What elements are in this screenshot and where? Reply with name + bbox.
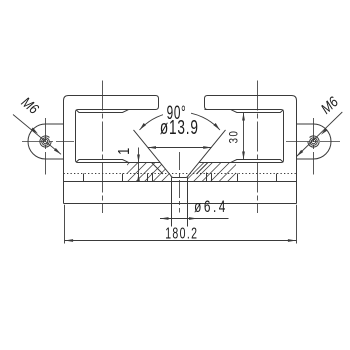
svg-text:ø6.4: ø6.4 bbox=[194, 198, 228, 216]
svg-text:ø13.9: ø13.9 bbox=[160, 116, 199, 138]
svg-text:30: 30 bbox=[227, 130, 240, 144]
svg-text:1: 1 bbox=[116, 148, 134, 155]
svg-text:180.2: 180.2 bbox=[165, 224, 198, 242]
